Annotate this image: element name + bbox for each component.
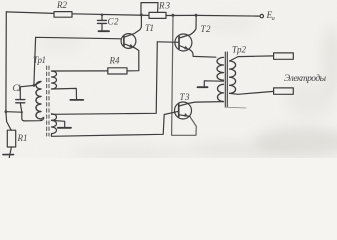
svg-text:a: a [272,16,275,22]
svg-text:Tp1: Tp1 [33,55,46,65]
svg-text:Tp2: Tp2 [232,45,247,55]
svg-text:R1: R1 [17,133,28,143]
svg-text:Электроды: Электроды [284,73,327,84]
svg-text:C1: C1 [13,83,22,93]
svg-text:R2: R2 [56,0,68,10]
svg-text:R4: R4 [109,55,121,65]
svg-text:T1: T1 [145,23,154,33]
svg-text:T3: T3 [180,92,191,102]
svg-text:T2: T2 [201,24,212,34]
svg-text:C2: C2 [108,17,120,27]
svg-text:R3: R3 [158,1,171,11]
